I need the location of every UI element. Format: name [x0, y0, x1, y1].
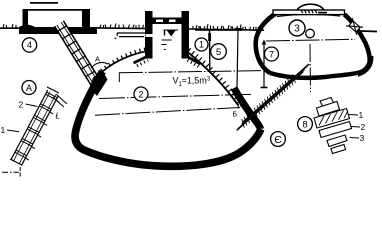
- entry box base slab: [19, 27, 97, 34]
- dome lid plate: [273, 10, 345, 15]
- right dome bold right side: [345, 15, 370, 63]
- entrance tube outer walls: [63, 21, 101, 83]
- vent pipe thick top: [208, 33, 211, 41]
- circled 4: [22, 38, 36, 52]
- inlet pipe into shaft: [115, 33, 154, 38]
- right dome thin apex line: [277, 14, 340, 16]
- entrance tube joints: [62, 28, 97, 85]
- detail A adjoining piece: [56, 94, 67, 104]
- bottom stub: [327, 135, 347, 147]
- svg-text:2: 2: [138, 89, 143, 99]
- level rod: [237, 29, 238, 87]
- left arc ticks: [102, 49, 146, 71]
- detail A top face: [47, 87, 59, 93]
- shaft left wall: [145, 11, 153, 59]
- dome centerline horizontal: [266, 39, 355, 41]
- thicker ground accent right of shaft: [195, 29, 242, 31]
- transfer pipe inner lines: [242, 66, 308, 124]
- collar 1: [317, 102, 340, 117]
- stray mark top left: [30, 2, 58, 4]
- svg-text:Ł: Ł: [56, 112, 60, 121]
- circled 5: [211, 44, 227, 60]
- detail A tube inner lines: [19, 95, 56, 165]
- line 3 end tick: [237, 104, 239, 109]
- detail A side ticks: [26, 101, 60, 161]
- main chamber bold wall left and bottom: [75, 72, 261, 167]
- mound over slab left: [19, 25, 35, 27]
- collar 2: [319, 122, 352, 138]
- ground line left segment: [0, 27, 20, 29]
- top stub: [320, 98, 334, 108]
- entry box right wall: [82, 9, 90, 28]
- tube-wall junction blob: [90, 71, 108, 96]
- grass tufts: [3, 24, 262, 31]
- label 2 leader: [26, 104, 38, 107]
- bottom tip: [331, 145, 346, 154]
- svg-text:3: 3: [360, 133, 365, 143]
- vent box on dome slope: [346, 18, 363, 35]
- svg-text:2: 2: [361, 122, 366, 132]
- chamber line 2: [99, 94, 252, 98]
- right dome bold left side: [256, 13, 277, 73]
- ground line mid segment: [96, 27, 147, 30]
- label 1 leader: [7, 130, 19, 132]
- svg-text:1: 1: [359, 110, 364, 120]
- float ball: [306, 29, 315, 38]
- transfer pipe outer walls: [243, 64, 309, 122]
- svg-text:1: 1: [199, 40, 204, 50]
- svg-text:5: 5: [216, 47, 221, 58]
- detail B leaders: [349, 115, 360, 139]
- detail B circled label: [298, 117, 313, 132]
- svg-text:7: 7: [269, 49, 274, 59]
- detail A tube walls: [21, 96, 58, 166]
- detail A end centerlines: [2, 171, 19, 173]
- lid surface dash: [318, 12, 327, 14]
- entry box lid line: [27, 9, 83, 11]
- main band: [314, 109, 350, 129]
- cap base hatch: [301, 10, 317, 13]
- detail B joint stack: [314, 98, 352, 154]
- left excavation arc: [100, 51, 146, 73]
- shaft right wall: [182, 11, 190, 59]
- entrance tube white core: [55, 21, 102, 88]
- detail A tube joints: [18, 95, 53, 161]
- vent outlet line: [361, 30, 377, 33]
- right dome corner: [358, 56, 371, 74]
- circled 3: [289, 20, 305, 36]
- line 1 left hook: [118, 73, 120, 82]
- water level symbol: [162, 30, 179, 50]
- dome centerline vertical: [309, 44, 312, 92]
- detail A circled label: [22, 81, 36, 95]
- svg-text:1: 1: [1, 125, 6, 135]
- transfer pipe white core: [237, 64, 309, 130]
- node A leader arc: [91, 62, 108, 68]
- transfer pipe hatch: [242, 74, 296, 128]
- chamber line 3: [95, 108, 240, 116]
- svg-text:Є: Є: [274, 134, 282, 146]
- svg-text:2: 2: [19, 100, 24, 110]
- ground line right segment: [188, 29, 264, 30]
- svg-text:8: 8: [302, 120, 307, 131]
- chamber axis line 1: [119, 71, 262, 73]
- detail A bottom face: [10, 159, 22, 165]
- svg-text:A: A: [95, 55, 100, 64]
- circled Є: [271, 132, 286, 147]
- detail B labels: [359, 110, 366, 143]
- vent pipe: [209, 30, 211, 71]
- shaft lid bar: [153, 18, 182, 25]
- circled 2: [134, 87, 148, 101]
- circled 7: [265, 47, 279, 61]
- ceiling stub left: [134, 57, 148, 64]
- dome cap bump: [297, 4, 324, 10]
- entrance tube inner lines: [61, 22, 99, 84]
- svg-text:Б: Б: [233, 112, 238, 119]
- ceiling stub right: [187, 57, 201, 65]
- svg-text:A: A: [26, 83, 32, 93]
- svg-text:3: 3: [294, 24, 300, 35]
- entry box left wall: [23, 9, 29, 28]
- main chamber bold wall right: [234, 88, 261, 129]
- volume text: [173, 76, 211, 89]
- circled 1: [195, 38, 208, 51]
- right excavation arc: [187, 52, 238, 106]
- flow arrow up: [261, 40, 268, 89]
- detail A tube core: [11, 90, 59, 166]
- svg-text:4: 4: [27, 40, 32, 50]
- right dome bottom arc: [270, 72, 361, 78]
- right arc ticks: [189, 49, 242, 105]
